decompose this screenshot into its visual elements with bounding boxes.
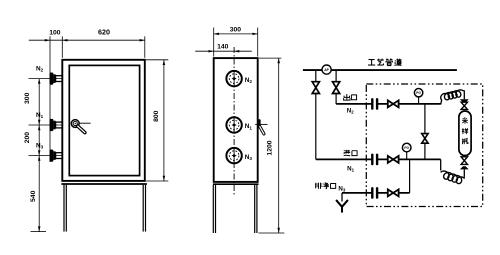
top cooling coil — [441, 90, 463, 100]
label 进口 — [345, 150, 347, 154]
side view: right leg — [254, 185, 256, 233]
svg-text:100: 100 — [49, 29, 61, 36]
sample bottle bottom valve — [461, 157, 467, 161]
funnel Y symbol — [337, 201, 342, 207]
inlet line 进口 N1 — [316, 158, 441, 160]
nozzle N2 side view flange face — [226, 71, 241, 86]
wire: right drop to outlet line — [335, 94, 337, 104]
dimension 1200 (right of side view) — [259, 57, 281, 59]
valve on left drop — [312, 82, 319, 94]
valve on drain line — [388, 189, 399, 196]
bulkhead flange pair on inlet — [373, 156, 376, 163]
bypass valve — [422, 134, 428, 139]
dim extension line through flanges x=50 — [49, 36, 51, 162]
svg-text:200: 200 — [24, 132, 31, 144]
label 工艺管道 — [369, 59, 375, 61]
svg-text:300: 300 — [24, 92, 31, 104]
side view: left leg — [212, 185, 214, 233]
dimension 300 (side top) — [213, 28, 215, 57]
valve on inlet line — [388, 156, 399, 163]
nozzle N3 side view flange face — [226, 148, 241, 163]
nozzle N3 front view — [29, 155, 64, 157]
side view vertical centerline — [233, 47, 235, 196]
wire outlet line to top coil — [441, 100, 442, 105]
pressure gauge PG on outlet — [418, 97, 420, 104]
svg-text:PG: PG — [416, 91, 421, 95]
quick coupler (filled funnel) bottom — [460, 166, 469, 169]
svg-text:PG: PG — [404, 146, 409, 150]
wire: left drop from pipeline — [315, 70, 317, 82]
front view: bottom frame rail — [61, 183, 146, 185]
nozzle N1 front view — [29, 124, 64, 126]
label 排净口 — [315, 183, 317, 188]
svg-text:1200: 1200 — [267, 140, 274, 155]
svg-text:140: 140 — [217, 44, 229, 51]
dimension 620 (top) — [62, 39, 145, 41]
sample bottle top valve — [461, 102, 467, 106]
wire: right drop from pipeline — [335, 70, 337, 82]
label 出口 — [346, 94, 348, 100]
front view: right leg — [142, 185, 144, 232]
sample bottle 采样瓶 — [459, 111, 471, 156]
outlet line 出口 N2 — [336, 103, 441, 105]
drain outfall drop — [341, 193, 343, 202]
pressure gauge PG on inlet — [406, 152, 408, 160]
svg-text:620: 620 — [98, 27, 110, 36]
side view: bottom frame rail — [213, 183, 259, 185]
dimension 140 (side) — [195, 50, 234, 52]
wire: left drop to inlet line — [315, 94, 317, 160]
wire bottom coupler to bottom coil — [463, 169, 465, 178]
bypass wire between outlet and inlet lines — [424, 104, 426, 159]
svg-text:AP: AP — [324, 68, 329, 72]
svg-text:300: 300 — [230, 27, 242, 34]
cabinet boundary (chain-line box) — [366, 84, 482, 207]
dimension 200 (left) — [38, 125, 41, 130]
drain line 排净口 N3 — [342, 192, 410, 194]
front view: door inner panel — [69, 65, 139, 175]
quick coupler (filled funnel) top — [460, 99, 469, 102]
dimension 800 (right of front view) — [146, 59, 168, 61]
dimension 540 (left) — [38, 156, 41, 161]
valve on right drop — [333, 82, 340, 94]
nozzle N2 front view — [29, 78, 64, 80]
inline instrument circle AP on pipeline — [322, 65, 331, 74]
bottom cooling coil — [441, 171, 464, 184]
valve on outlet line — [388, 100, 399, 107]
front door handle — [71, 120, 79, 128]
svg-text:800: 800 — [153, 110, 160, 122]
side view: cabinet body — [214, 58, 258, 182]
wire top coil to sample valve stem — [463, 91, 465, 100]
bulkhead flange pair on outlet — [373, 100, 376, 107]
front view: left leg — [63, 185, 65, 232]
svg-text:540: 540 — [30, 190, 37, 202]
bulkhead flange pair on drain — [373, 189, 376, 196]
dimension 100 (top) — [29, 39, 63, 41]
left dimension column line — [38, 79, 40, 232]
side view door handle — [255, 123, 267, 125]
drain connection wire from inlet line down — [409, 159, 411, 193]
wire inlet line down to bottom coil — [440, 159, 442, 170]
nozzle N1 side view flange face — [226, 117, 241, 132]
dimension 300 (left) — [38, 79, 41, 84]
process pipeline 工艺管道 — [303, 69, 457, 71]
front view: cabinet outer body — [62, 60, 145, 181]
